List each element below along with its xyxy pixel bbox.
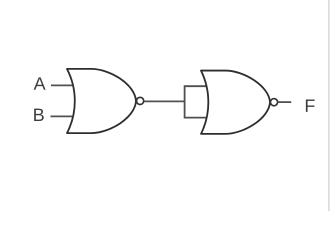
gate2 input tie rectangle [185, 86, 208, 117]
wire input A [51, 84, 72, 86]
NOR gate 2 body [201, 71, 270, 134]
label A [34, 77, 46, 89]
NOR gate 1 output bubble [137, 97, 144, 104]
NOR gate 2 output bubble [270, 99, 277, 106]
right panel border [328, 0, 329, 211]
wire gate1 output to gate2 input tie [144, 100, 185, 102]
label F [306, 100, 315, 112]
NOR gate 1 body [67, 69, 136, 133]
wire input B [51, 115, 73, 117]
wire gate2 output [278, 101, 291, 103]
label B [34, 109, 44, 121]
